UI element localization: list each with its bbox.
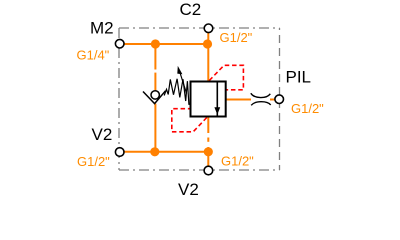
junction node bottom right — [204, 147, 213, 156]
port V2 left — [115, 148, 124, 157]
wire short dash segment below box — [207, 138, 209, 142]
svg-text:G1/4": G1/4" — [77, 47, 110, 62]
wire valve box bottom down (solid part) — [207, 117, 209, 134]
port C2 — [204, 24, 213, 33]
wire into bottom node down to V2 bottom port — [207, 147, 209, 166]
valve body boundary (dash-dot envelope) top — [119, 27, 280, 29]
restrictor bottom curve — [251, 102, 271, 106]
junction node top left — [151, 39, 160, 48]
spring — [164, 79, 190, 105]
svg-text:G1/2": G1/2" — [77, 154, 110, 169]
wire valve box right to restrictor — [226, 99, 251, 101]
svg-text:G1/2": G1/2" — [291, 101, 324, 116]
svg-text:PIL: PIL — [286, 68, 312, 87]
check valve ball — [151, 91, 159, 99]
wire M2 to node C2-drop (horizontal) — [124, 43, 209, 45]
relief valve flow arrow shaft — [216, 82, 218, 117]
relief valve box — [191, 82, 226, 117]
wire C2 drop down through node to valve box top — [207, 33, 209, 82]
port PIL — [275, 95, 284, 104]
relief valve flow arrow head — [214, 107, 220, 114]
port M2 — [115, 39, 124, 48]
pilot drain line (red dashed) from box bottom to left side — [172, 109, 207, 132]
junction node top right — [203, 39, 212, 48]
pilot line (red dashed) from box top-left to right side — [209, 65, 243, 90]
spring adjustment arrow head — [177, 66, 182, 74]
svg-text:C2: C2 — [180, 0, 202, 19]
wire restrictor to PIL port — [270, 99, 275, 101]
check valve seat — [143, 91, 166, 104]
restrictor top curve — [251, 93, 270, 97]
svg-text:V2: V2 — [92, 125, 113, 144]
valve body boundary right — [279, 28, 281, 170]
junction node bottom left — [150, 147, 159, 156]
valve body boundary bottom — [119, 169, 280, 171]
spring adjustment arrow shaft — [180, 72, 187, 94]
wire V2 horizontal line — [124, 151, 209, 153]
svg-text:G1/2": G1/2" — [221, 154, 254, 169]
svg-text:V2: V2 — [178, 180, 199, 199]
port V2 bottom — [204, 166, 213, 175]
valve body boundary left — [118, 28, 120, 170]
svg-text:G1/2": G1/2" — [220, 30, 253, 45]
svg-text:M2: M2 — [90, 19, 114, 38]
wire node down to check valve top (upper part) — [154, 44, 156, 70]
wire node down to check valve top (lower part) — [154, 73, 156, 91]
wire check valve bottom to V2 line — [154, 104, 156, 152]
